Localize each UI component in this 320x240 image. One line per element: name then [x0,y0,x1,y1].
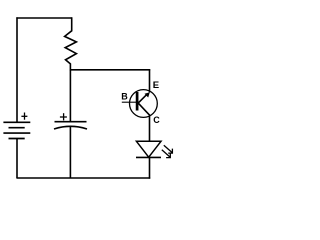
wire left rail upper [16,17,18,122]
battery B1 [3,122,30,138]
wire capacitor top lead [69,70,71,122]
resistor R1 [65,17,77,70]
svg-text:B: B [121,92,128,102]
svg-text:C: C [153,115,160,125]
transistor Q1 base lead [122,101,136,103]
transistor Q1 collector lead [138,103,150,116]
capacitor plus label [60,113,67,120]
LED D1 cathode bar [136,156,161,158]
transistor Q1 circle [130,90,158,118]
wire middle horizontal [70,69,150,71]
LED D1 light arrow 1 [164,145,173,153]
wire right rail middle (collector to LED) [149,116,151,142]
capacitor C1 [54,122,87,129]
battery plus label [21,113,27,120]
transistor Q1 base bar [136,92,139,111]
wire top horizontal [16,17,71,19]
wire left rail lower [16,139,18,179]
LED D1 triangle [136,141,161,157]
wire capacitor bottom lead [69,127,71,178]
LED D1 light arrow 2 [162,150,171,158]
wire right rail lower (LED to bottom) [149,157,151,178]
wire bottom horizontal [16,177,150,179]
transistor Q1 emitter lead with arrow [138,92,150,103]
svg-text:E: E [153,80,159,91]
wire right rail upper (to emitter) [149,69,151,92]
